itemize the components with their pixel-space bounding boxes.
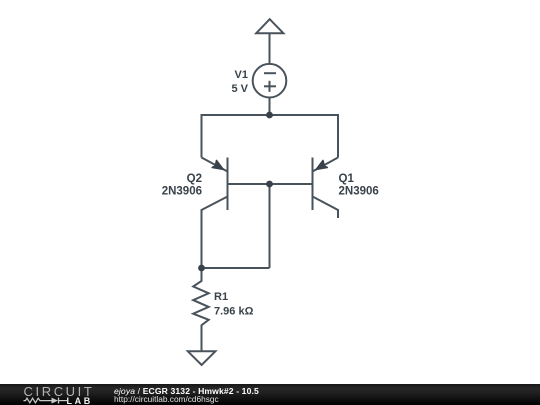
svg-text:Q1: Q1	[339, 173, 355, 185]
svg-text:2N3906: 2N3906	[162, 186, 202, 198]
svg-text:R1: R1	[214, 291, 228, 303]
svg-text:5 V: 5 V	[231, 83, 248, 95]
svg-text:LAB: LAB	[67, 396, 93, 405]
svg-text:Q2: Q2	[187, 173, 202, 185]
svg-text:2N3906: 2N3906	[339, 186, 379, 198]
svg-text:V1: V1	[235, 69, 248, 81]
svg-text:7.96 kΩ: 7.96 kΩ	[214, 306, 254, 318]
